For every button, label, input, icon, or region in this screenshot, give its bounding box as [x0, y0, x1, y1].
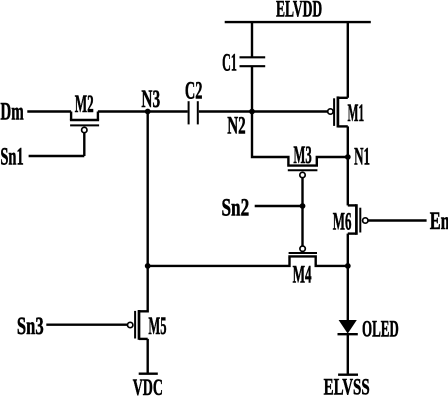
svg-text:ELVDD: ELVDD	[276, 0, 322, 22]
wire Sn3 input	[46, 324, 127, 326]
svg-text:OLED: OLED	[362, 316, 399, 341]
wire node N3 column down to M5 source	[139, 112, 148, 312]
svg-text:M3: M3	[293, 142, 311, 169]
svg-text:En: En	[430, 208, 448, 235]
node N2 junction	[249, 109, 255, 115]
svg-text:N3: N3	[141, 86, 160, 113]
wire Sn2 input	[255, 205, 303, 207]
svg-text:Sn2: Sn2	[222, 195, 250, 222]
node N3 junction	[145, 109, 151, 115]
wire Sn1 input	[29, 155, 85, 157]
wire M6 drain down to OLED junction	[347, 234, 349, 266]
capacitor C1	[240, 57, 266, 66]
svg-text:Sn1: Sn1	[0, 143, 23, 170]
wire M5 drain to VDC	[146, 339, 148, 373]
wire node N1 to M6 source	[347, 157, 349, 205]
ground ELVSS terminal bar	[338, 374, 358, 376]
wire C1 bottom plate to node N2	[251, 66, 253, 111]
wire junction to OLED anode	[347, 266, 349, 321]
svg-text:M5: M5	[148, 313, 166, 340]
node Sn2 gate junction	[300, 203, 306, 209]
wire ELVDD rail to C1 top plate	[251, 22, 253, 57]
ground VDC terminal bar	[139, 373, 158, 375]
svg-text:Dm: Dm	[0, 99, 23, 126]
wire OLED cathode to ELVSS	[347, 334, 349, 374]
svg-text:C1: C1	[222, 50, 237, 77]
transistor M6	[348, 204, 368, 235]
svg-text:M1: M1	[348, 100, 365, 127]
wire M2 drain to C2 (through node N3)	[98, 110, 188, 112]
wire ELVDD rail to M1 source	[347, 22, 349, 98]
power rail ELVDD	[225, 21, 371, 23]
wire M1 drain to node N1	[347, 126, 349, 157]
wire node N2 down to M3 source	[252, 112, 288, 165]
svg-text:ELVSS: ELVSS	[324, 375, 370, 396]
svg-text:Sn3: Sn3	[17, 313, 44, 340]
transistor M3	[287, 157, 348, 206]
transistor M4	[148, 246, 348, 266]
wire Dm input	[27, 110, 71, 112]
svg-text:M2: M2	[75, 91, 94, 118]
svg-text:C2: C2	[185, 77, 203, 104]
svg-text:M6: M6	[333, 209, 352, 236]
svg-text:M4: M4	[293, 261, 312, 288]
svg-text:N2: N2	[227, 113, 245, 140]
transistor M1	[328, 96, 348, 127]
node M4 right junction	[345, 263, 351, 269]
transistor M2	[70, 112, 99, 157]
node M4 left junction	[145, 263, 151, 269]
capacitor C2	[189, 101, 198, 124]
wire C2 to node N2 to M1 gate	[199, 110, 328, 112]
transistor M5	[128, 310, 148, 340]
diode OLED	[338, 320, 358, 334]
wire Sn2 junction to M4 gate	[301, 206, 303, 246]
wire En input	[368, 219, 427, 221]
svg-text:VDC: VDC	[133, 375, 163, 396]
node N1 junction	[345, 154, 351, 160]
svg-text:N1: N1	[354, 144, 370, 171]
